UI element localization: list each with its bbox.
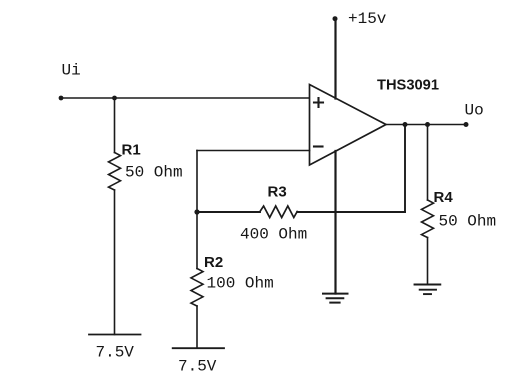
svg-text:+15v: +15v bbox=[348, 10, 387, 28]
svg-text:Ui: Ui bbox=[62, 62, 81, 80]
svg-text:THS3091: THS3091 bbox=[377, 77, 439, 94]
node junction output / feedback riser bbox=[403, 122, 408, 127]
wire R3 left lead bbox=[197, 211, 260, 213]
pin - (inverting input mark) bbox=[314, 145, 323, 147]
op-amp U1 THS3091 triangle bbox=[310, 85, 387, 166]
resistor R3 bbox=[260, 206, 297, 218]
svg-text:50 Ohm: 50 Ohm bbox=[439, 213, 497, 231]
wire output from op-amp to Uo bbox=[386, 124, 466, 126]
svg-text:R1: R1 bbox=[122, 142, 141, 159]
resistor R1 bbox=[109, 153, 121, 191]
ground rail 7.5V under R2 bbox=[173, 347, 224, 349]
wire inverting input feedback: horizontal to op-amp - input bbox=[197, 150, 310, 152]
wire op-amp bottom supply down to ground bbox=[334, 151, 336, 294]
resistor R4 bbox=[422, 200, 434, 238]
node +15v supply terminal dot bbox=[333, 16, 338, 21]
pin + (non-inverting input mark) bbox=[314, 98, 323, 107]
node Uo output terminal dot bbox=[464, 122, 469, 127]
svg-text:7.5V: 7.5V bbox=[96, 344, 135, 362]
svg-text:50 Ohm: 50 Ohm bbox=[125, 164, 183, 182]
wire R2 top lead bbox=[196, 212, 198, 269]
svg-text:Uo: Uo bbox=[465, 102, 484, 120]
wire R1 bottom lead bbox=[114, 190, 116, 335]
svg-text:R3: R3 bbox=[268, 184, 287, 201]
svg-text:R4: R4 bbox=[434, 189, 454, 206]
ground (under R4) bbox=[415, 285, 441, 295]
wire R4 top lead bbox=[427, 125, 429, 201]
node junction output / R4 bbox=[425, 122, 430, 127]
ground (mid supply) bbox=[323, 294, 348, 303]
svg-text:7.5V: 7.5V bbox=[178, 358, 217, 376]
svg-text:100 Ohm: 100 Ohm bbox=[207, 275, 274, 293]
ground rail 7.5V under R1 bbox=[89, 334, 141, 336]
svg-text:400 Ohm: 400 Ohm bbox=[240, 226, 307, 244]
wire inverting input feedback: vertical down to R2/R3 node bbox=[196, 151, 198, 213]
svg-text:R2: R2 bbox=[204, 254, 223, 271]
wire feedback riser from R3 up to output bbox=[404, 125, 406, 213]
resistor R2 bbox=[191, 269, 203, 307]
wire R1 top lead bbox=[114, 98, 116, 153]
wire R2 bottom lead bbox=[196, 306, 198, 348]
node junction R2/R3/feedback bbox=[194, 209, 199, 214]
wire input from Ui to op-amp + input bbox=[61, 97, 310, 99]
wire R3 right lead to output column bbox=[297, 211, 405, 213]
wire R4 bottom lead bbox=[427, 238, 429, 285]
node junction input wire / R1 bbox=[112, 96, 117, 101]
wire +15v supply down to op-amp top bbox=[334, 19, 336, 99]
node Ui input terminal dot bbox=[59, 96, 64, 101]
